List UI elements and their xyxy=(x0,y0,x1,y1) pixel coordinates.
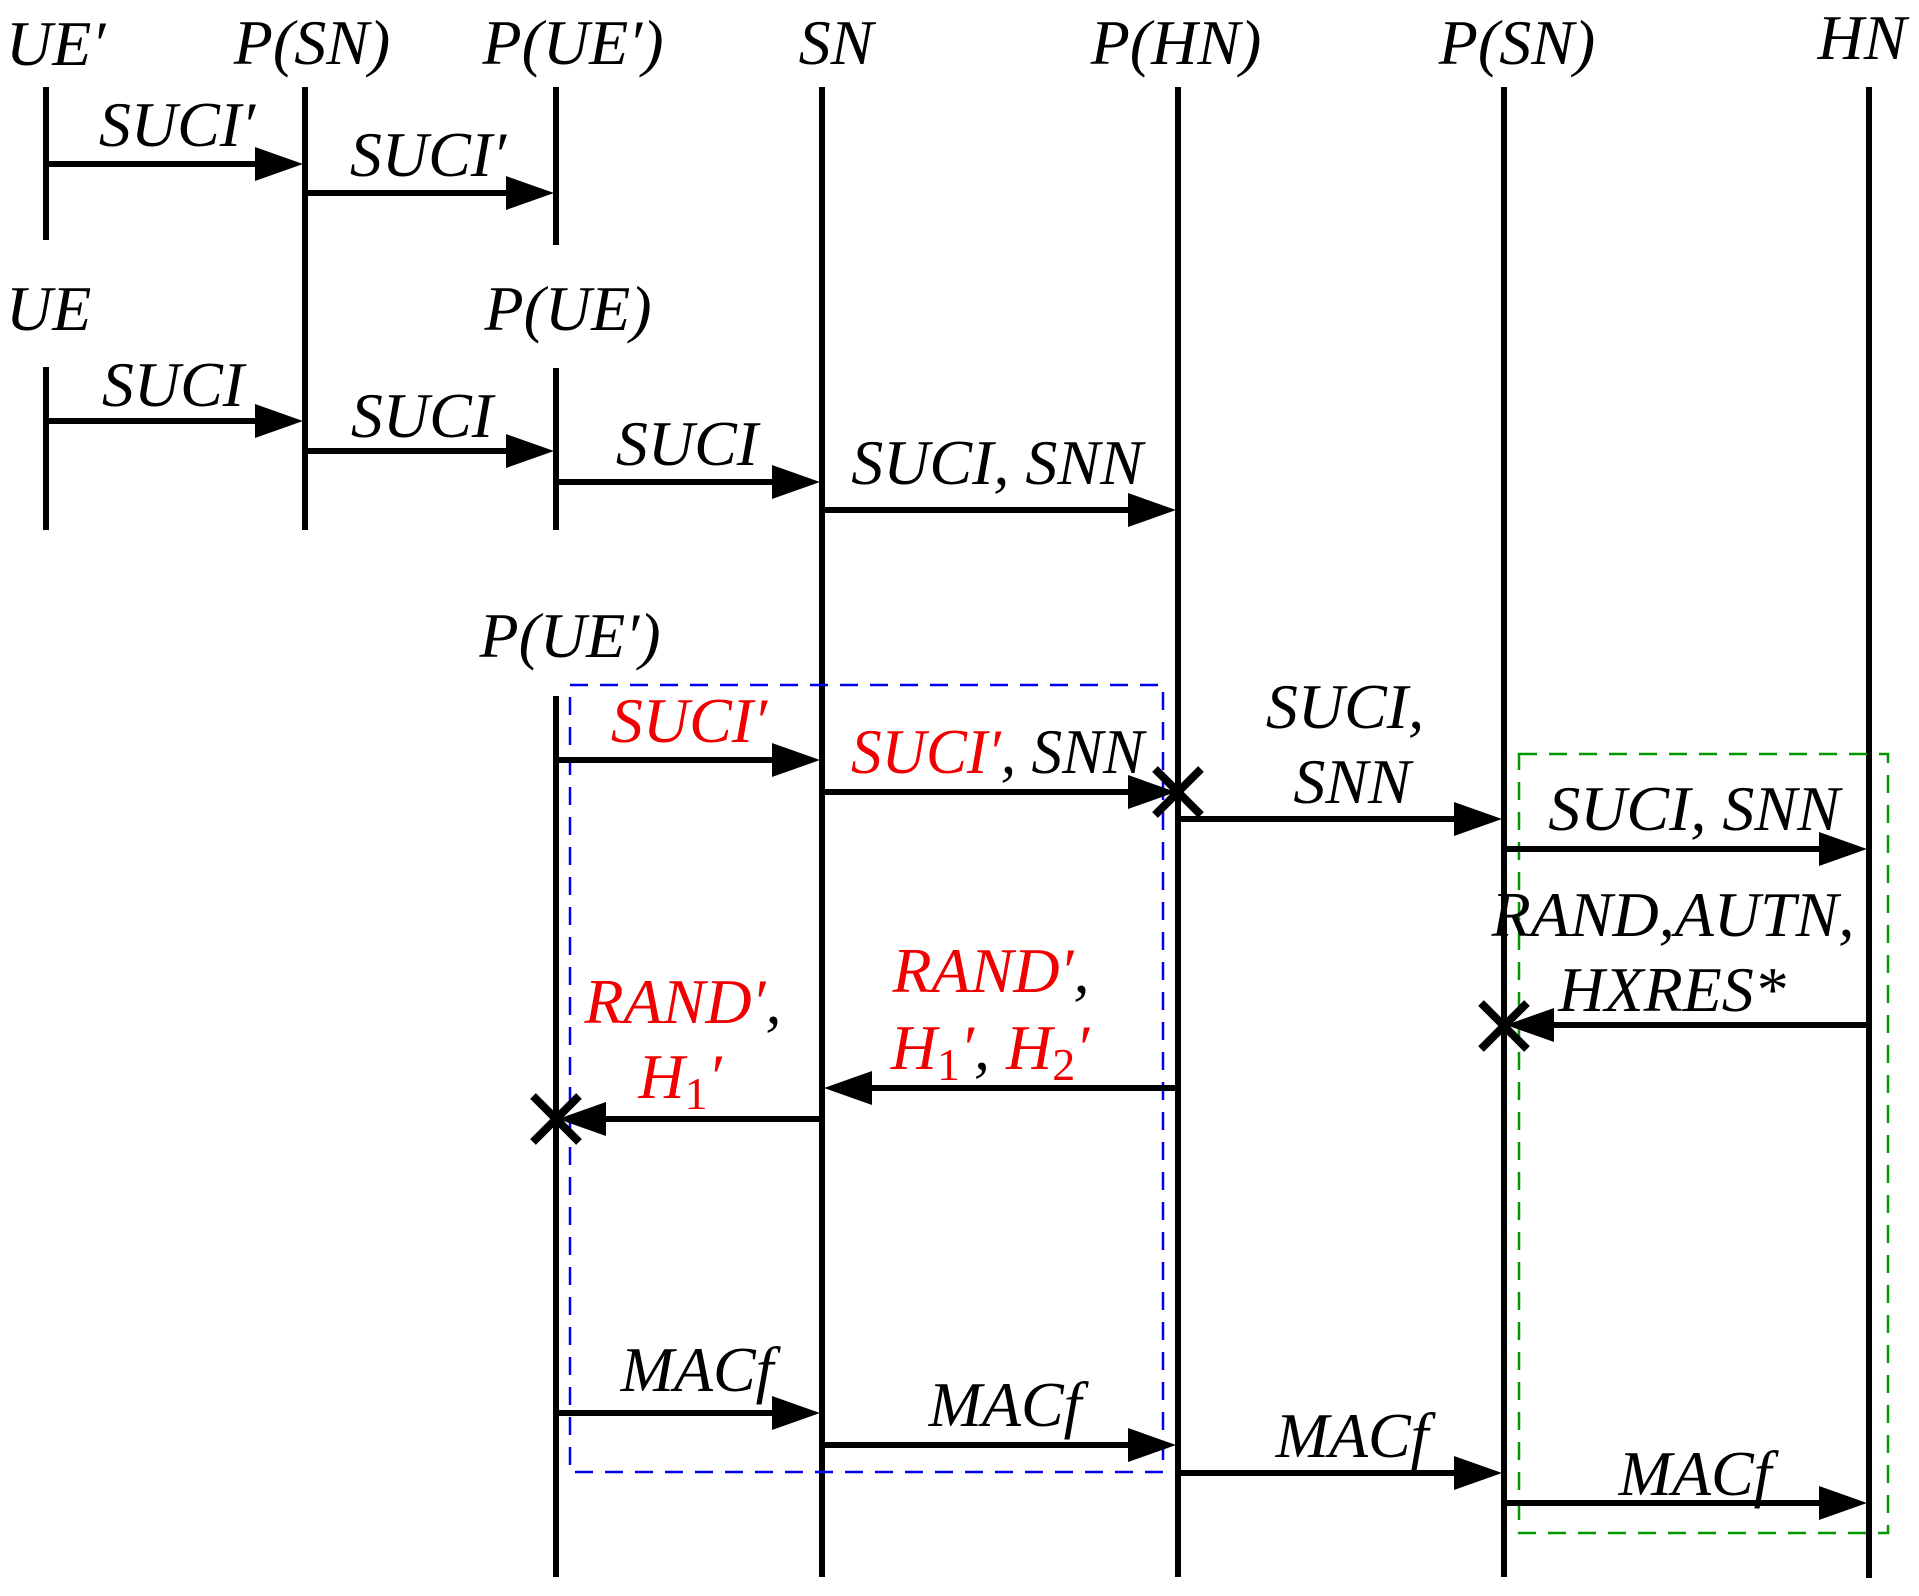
lifeline P(UE') segment 3 xyxy=(553,696,559,1577)
lifeline P(HN) xyxy=(1175,87,1181,1577)
wire arrow SUCI UE->P(SN) xyxy=(46,404,303,438)
svg-text:MACf: MACf xyxy=(1618,1438,1780,1509)
svg-text:P(UE): P(UE) xyxy=(483,273,651,344)
svg-text:RAND′,: RAND′, xyxy=(891,935,1089,1006)
wire arrow RAND,AUTN,HXRES* HN->P(SN) xyxy=(1506,1008,1869,1042)
lifeline SN xyxy=(819,87,825,1577)
svg-text:SUCI, SNN: SUCI, SNN xyxy=(851,427,1146,498)
wire arrow RAND',H1' SN->P(UE') xyxy=(558,1102,822,1136)
wire arrow SUCI' P(SN)->P(UE') xyxy=(305,176,554,210)
lifeline P(SN) right xyxy=(1501,87,1507,1577)
svg-text:P(UE′): P(UE′) xyxy=(478,600,660,671)
svg-text:MACf: MACf xyxy=(620,1334,782,1405)
green dashed box xyxy=(1519,754,1888,1533)
svg-text:SUCI: SUCI xyxy=(102,349,247,420)
drop mark X at P(UE') xyxy=(533,1096,579,1142)
svg-text:SUCI, SNN: SUCI, SNN xyxy=(1548,773,1843,844)
lifeline HN xyxy=(1866,87,1872,1578)
wire arrow MACf P(UE')->SN xyxy=(556,1396,820,1430)
svg-text:MACf: MACf xyxy=(1275,1400,1437,1471)
lifeline P(UE) segment 2 xyxy=(553,368,559,530)
svg-text:SUCI,: SUCI, xyxy=(1266,671,1424,742)
svg-text:SNN: SNN xyxy=(1293,746,1414,817)
svg-text:UE: UE xyxy=(6,273,91,344)
lifeline UE' (top segment) xyxy=(43,87,49,240)
svg-text:SN: SN xyxy=(799,7,877,78)
svg-text:MACf: MACf xyxy=(928,1369,1090,1440)
svg-text:P(SN): P(SN) xyxy=(233,7,390,78)
svg-text:P(HN): P(HN) xyxy=(1090,7,1262,78)
svg-text:H1′: H1′ xyxy=(637,1041,722,1119)
wire arrow MACf P(HN)->P(SN) xyxy=(1178,1456,1502,1490)
lifeline P(SN) left xyxy=(302,87,308,530)
svg-text:RAND,AUTN,: RAND,AUTN, xyxy=(1491,879,1855,950)
drop mark X at P(HN) xyxy=(1155,769,1201,815)
drop mark X at P(SN) xyxy=(1481,1003,1527,1049)
wire arrow SUCI P(UE)->SN xyxy=(556,465,820,499)
wire arrow SUCI,SNN SN->P(HN) xyxy=(822,493,1176,527)
svg-text:SUCI′: SUCI′ xyxy=(350,119,507,190)
svg-text:SUCI: SUCI xyxy=(616,408,761,479)
svg-text:RAND′,: RAND′, xyxy=(583,966,781,1037)
lifeline P(UE') segment 1 xyxy=(553,87,559,245)
svg-text:P(SN): P(SN) xyxy=(1438,7,1595,78)
wire arrow RAND',H1',H2' P(HN)->SN xyxy=(824,1071,1178,1105)
wire arrow SUCI P(SN)->P(UE) xyxy=(305,434,554,468)
blue dashed attack box xyxy=(570,685,1163,1472)
svg-text:UE′: UE′ xyxy=(6,8,106,79)
svg-text:HN: HN xyxy=(1817,2,1910,73)
lifeline UE xyxy=(43,367,49,530)
wire arrow SUCI,SNN P(HN)->P(SN) xyxy=(1178,802,1502,836)
wire arrow SUCI,SNN P(SN)->HN xyxy=(1504,832,1867,866)
svg-text:SUCI′: SUCI′ xyxy=(611,685,768,756)
svg-text:SUCI′: SUCI′ xyxy=(99,89,256,160)
svg-text:HXRES*: HXRES* xyxy=(1557,954,1786,1025)
svg-text:P(UE′): P(UE′) xyxy=(481,7,663,78)
svg-text:SUCI′, SNN: SUCI′, SNN xyxy=(851,716,1147,787)
wire arrow SUCI' P(UE')->SN xyxy=(556,743,820,777)
wire arrow MACf P(SN)->HN xyxy=(1504,1486,1867,1520)
wire arrow MACf SN->P(HN) xyxy=(822,1428,1176,1462)
wire arrow SUCI',SNN SN->P(HN) xyxy=(822,775,1176,809)
svg-text:SUCI: SUCI xyxy=(351,380,496,451)
wire arrow SUCI' UE'->P(SN) xyxy=(46,147,303,181)
